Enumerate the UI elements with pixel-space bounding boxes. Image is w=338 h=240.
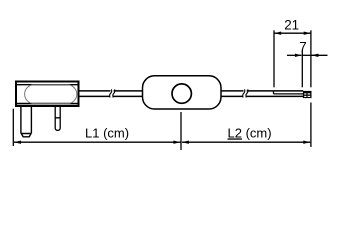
svg-text:7: 7 [299, 39, 306, 54]
svg-text:21: 21 [284, 17, 299, 32]
svg-text:L1 (cm): L1 (cm) [85, 125, 129, 140]
svg-text:L2 (cm): L2 (cm) [228, 125, 272, 140]
